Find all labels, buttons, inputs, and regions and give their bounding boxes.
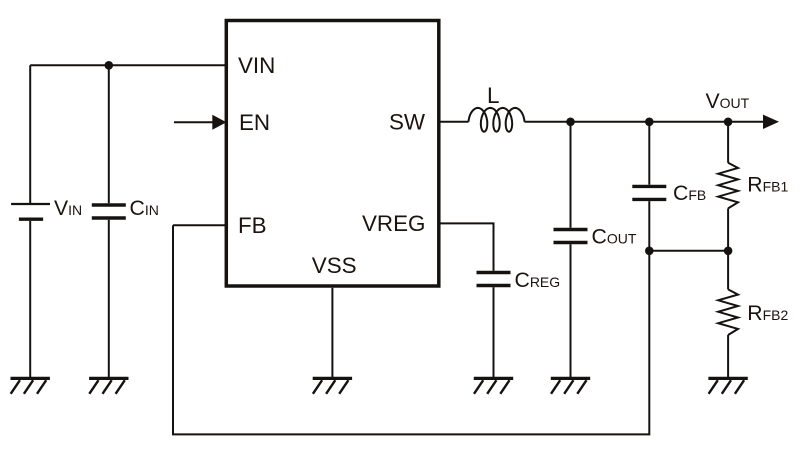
svg-text:SW: SW	[389, 109, 426, 134]
resistor R_FB2	[718, 289, 738, 335]
wire RFB2 top	[727, 251, 729, 290]
node FB left	[645, 247, 654, 256]
ground	[89, 378, 128, 393]
ground	[474, 378, 513, 393]
EN input arrow	[174, 115, 226, 130]
ground	[551, 378, 590, 393]
wire COUT top	[570, 122, 572, 228]
wire CIN vertical top	[108, 65, 110, 203]
svg-text:L: L	[487, 83, 499, 108]
svg-text:VIN: VIN	[238, 53, 275, 78]
svg-text:VSS: VSS	[312, 253, 357, 278]
svg-text:RFB1: RFB1	[747, 174, 788, 197]
ground	[11, 378, 50, 393]
node SW/COUT	[566, 118, 575, 127]
node FB right	[724, 247, 733, 256]
wire CFB top	[648, 122, 650, 185]
capacitor C_IN	[92, 205, 126, 218]
wire VSS	[331, 288, 333, 377]
wire inductor to VOUT arrow	[525, 121, 766, 123]
node SW/CFB	[645, 118, 654, 127]
wire CREG to ground	[493, 287, 495, 377]
svg-text:VREG: VREG	[362, 211, 425, 236]
ground	[708, 378, 747, 393]
capacitor C_FB	[632, 186, 666, 199]
svg-text:COUT: COUT	[592, 226, 637, 249]
wire battery to ground	[29, 221, 31, 377]
svg-text:EN: EN	[239, 110, 270, 135]
svg-text:FB: FB	[238, 213, 267, 238]
wire CIN to ground	[108, 220, 110, 377]
wire left vertical to battery	[29, 65, 31, 204]
svg-text:VIN: VIN	[54, 197, 82, 220]
wire CFB bottom	[648, 201, 650, 251]
wire COUT to ground	[570, 244, 572, 377]
op-amp U1 : IC body	[226, 21, 438, 287]
inductor L	[469, 108, 525, 132]
svg-text:RFB2: RFB2	[747, 302, 788, 325]
wire RFB2 to ground	[727, 335, 729, 377]
wire VIN horizontal	[30, 64, 225, 66]
svg-text:CREG: CREG	[515, 269, 561, 292]
wire SW to inductor	[439, 121, 469, 123]
wire FB pin	[173, 224, 225, 226]
capacitor C_REG	[477, 273, 511, 286]
capacitor C_OUT	[554, 230, 588, 243]
svg-text:VOUT: VOUT	[706, 90, 750, 113]
wire VREG	[439, 223, 494, 270]
wire feedback loop	[173, 225, 649, 434]
wire RFB1 bottom	[727, 208, 729, 250]
svg-text:CIN: CIN	[130, 197, 159, 220]
node at VIN/CIN junction	[105, 61, 114, 70]
svg-text:CFB: CFB	[673, 182, 706, 205]
ground	[313, 378, 352, 393]
battery V_IN	[11, 204, 50, 219]
resistor R_FB1	[718, 163, 738, 209]
wire RFB1 top	[727, 122, 729, 163]
wire FB node horizontal	[649, 250, 728, 252]
node SW/RFB1	[724, 118, 733, 127]
VOUT arrowhead	[763, 115, 779, 129]
